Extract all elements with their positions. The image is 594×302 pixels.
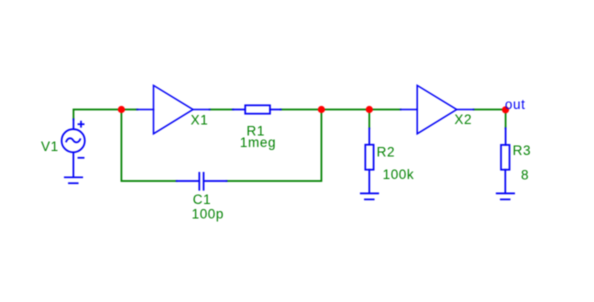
wire feedback right rail	[227, 110, 322, 182]
svg-text:1meg: 1meg	[240, 135, 276, 150]
svg-text:X2: X2	[454, 112, 472, 127]
capacitor C1	[177, 173, 227, 190]
wire X1 output to R1	[210, 109, 234, 111]
node C junction dot	[318, 106, 325, 113]
voltage source V1	[62, 119, 85, 177]
node out junction dot	[502, 106, 509, 113]
svg-text:R2: R2	[377, 145, 395, 160]
op-amp buffer X2	[401, 85, 474, 133]
wire V1 top to node A	[74, 110, 122, 120]
ground below R2	[361, 193, 378, 199]
svg-text:100k: 100k	[383, 167, 415, 182]
resistor R3	[501, 128, 510, 193]
svg-text:100p: 100p	[192, 207, 224, 222]
resistor R2	[365, 128, 373, 193]
wire X2 output to node out	[474, 109, 506, 111]
svg-text:R3: R3	[513, 143, 531, 158]
svg-text:C1: C1	[193, 192, 211, 207]
svg-text:out: out	[505, 97, 526, 112]
resistor R1	[233, 105, 281, 113]
node A junction dot	[118, 106, 125, 113]
wire feedback left rail	[121, 110, 176, 182]
svg-text:V1: V1	[41, 139, 59, 154]
wire R1 to node C through node B	[281, 109, 401, 111]
svg-text:8: 8	[521, 167, 529, 182]
ground below V1	[65, 177, 82, 183]
op-amp buffer X1	[137, 85, 210, 133]
wire node out down to R3	[505, 110, 507, 129]
wire node A to X1 input	[121, 109, 137, 111]
ground below R3	[497, 193, 514, 199]
wire node B down to R2	[368, 110, 370, 129]
svg-text:X1: X1	[191, 112, 209, 127]
node B junction dot	[366, 106, 373, 113]
